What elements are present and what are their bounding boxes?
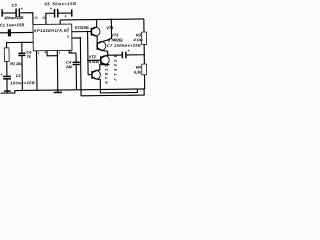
resistor R4	[142, 64, 147, 75]
wire C2 to ground rail	[6, 79, 8, 93]
svg-text:6,3к: 6,3к	[134, 69, 142, 74]
svg-text:КТ815: КТ815	[89, 59, 100, 64]
junction node VT3 collector	[110, 18, 112, 20]
VT2 collector wire up to VT4	[97, 64, 109, 70]
capacitor C7	[122, 52, 126, 59]
transistor VT2	[92, 70, 101, 79]
svg-text:C5: C5	[44, 1, 50, 6]
adj wire down to bottom bus	[79, 38, 82, 96]
capacitor C6	[18, 53, 25, 55]
pin 8 wire to base bus	[72, 37, 80, 39]
svg-text:КР142ЕН1(А,Б): КР142ЕН1(А,Б)	[34, 28, 69, 33]
terminal bar right of C5	[71, 9, 73, 16]
wire R1 to C2	[6, 61, 8, 76]
input rail left	[0, 31, 33, 33]
svg-text:R1 100: R1 100	[10, 61, 23, 66]
svg-text:КТ315Б: КТ315Б	[75, 25, 89, 30]
VT4 collector wire down	[106, 64, 109, 66]
junction node pin2-pin3	[56, 55, 58, 57]
pin 7 wire to VT1 base	[72, 30, 92, 32]
C7 wire to output rail	[108, 54, 144, 56]
transistor VT3	[97, 41, 106, 51]
VT4 base wire from bus	[88, 59, 101, 61]
wire C5 to terminal	[58, 12, 72, 14]
junction node base bus mid	[87, 59, 89, 61]
wire C4 to ground rail	[75, 64, 77, 89]
transistor VT4	[101, 55, 110, 64]
wire y42.6 to IC	[7, 42, 34, 48]
resistor R3	[142, 32, 147, 44]
transistor VT1	[91, 27, 100, 37]
wire C3 to IC corner	[19, 13, 33, 25]
svg-text:12: 12	[42, 16, 46, 20]
resistor R1	[4, 48, 9, 62]
svg-text:50мк×15В: 50мк×15В	[52, 1, 76, 6]
pin 2 wire down and right to C4	[47, 51, 57, 56]
capacitor C1 on rail	[9, 29, 11, 36]
VT2 base wire from bus	[88, 74, 92, 76]
svg-text:240: 240	[65, 64, 73, 69]
chassis ground bar	[54, 91, 62, 93]
pin 5 stub down to C4 top	[69, 50, 76, 53]
base bus vertical	[87, 32, 90, 75]
pin 12 stub to C5	[46, 13, 55, 24]
pin 3 wire down to junction bar	[56, 51, 59, 93]
top supply rail	[60, 19, 144, 20]
junction node at C6 tap	[21, 42, 23, 44]
junction node output C7	[143, 54, 145, 56]
input terminal top left	[1, 9, 3, 16]
svg-text:100мк×10В: 100мк×10В	[4, 15, 24, 20]
ground rail	[0, 89, 144, 93]
VT4 emitter wire up to C7 node	[106, 54, 108, 57]
pin 9 stub to top rail	[59, 20, 61, 24]
capacitor C3	[16, 8, 19, 17]
wire C6 to ground rail	[21, 55, 23, 90]
output rail right	[143, 19, 146, 89]
junction node base bus top	[87, 31, 89, 33]
bottom bus outer	[81, 89, 144, 96]
svg-text:4 Ом: 4 Ом	[132, 37, 142, 42]
C2 bottom junction bar	[4, 90, 11, 92]
wire top-left to C3	[2, 12, 16, 14]
svg-text:C7 1000мк×25В: C7 1000мк×25В	[107, 43, 141, 48]
wire tap to C6	[21, 42, 23, 53]
VT3 emitter wire to C7 node	[103, 51, 108, 56]
VT1 emitter wire down to VT3 base	[96, 36, 98, 42]
VT3 collector wire to rail	[102, 19, 111, 41]
svg-text:(ГТ402Б): (ГТ402Б)	[108, 37, 123, 42]
svg-text:VT1: VT1	[106, 25, 113, 30]
IC U1 box	[33, 24, 72, 51]
svg-text:C1 1мк×15В: C1 1мк×15В	[0, 22, 24, 27]
VT2 emitter wire to ground rail	[98, 79, 101, 89]
junction node C7 left	[107, 54, 109, 56]
junction node pin8	[79, 37, 81, 39]
capacitor C2	[3, 76, 11, 78]
bottom bus inner	[100, 89, 137, 93]
svg-text:C2: C2	[16, 73, 22, 78]
capacitor C5	[54, 9, 57, 18]
svg-text:10: 10	[34, 16, 38, 20]
capacitor C4	[75, 53, 77, 62]
VT1 collector wire to rail	[96, 20, 98, 27]
pin 1 wire down to ground	[36, 51, 38, 90]
svg-text:C3: C3	[12, 2, 18, 7]
junction node VT1 collector	[96, 19, 98, 21]
